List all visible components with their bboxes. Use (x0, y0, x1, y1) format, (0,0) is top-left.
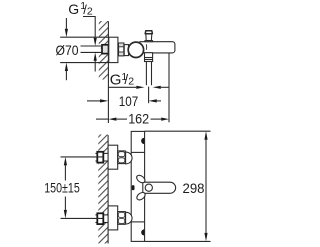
svg-text:G: G (110, 72, 122, 89)
svg-text:Ø70: Ø70 (56, 43, 79, 58)
svg-text:162: 162 (128, 112, 149, 127)
svg-text:2: 2 (87, 5, 93, 17)
svg-text:298: 298 (183, 181, 205, 196)
svg-text:150±15: 150±15 (44, 181, 80, 196)
svg-text:107: 107 (119, 94, 139, 109)
svg-text:2: 2 (128, 76, 134, 88)
svg-text:G: G (68, 1, 79, 17)
